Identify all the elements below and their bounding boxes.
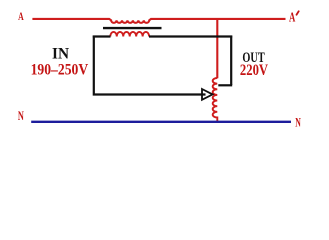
- svg-text:N: N: [18, 109, 24, 123]
- wire: rectangle top edge left part: [93, 35, 111, 37]
- svg-text:A: A: [289, 9, 296, 24]
- wire: fixed tap segment to coil: [218, 84, 232, 86]
- wire: red vertical drop from phase line to autotransformer: [216, 19, 218, 78]
- transformer core bar: [103, 27, 162, 29]
- inductor: autotransformer shunt winding (vertical coil): [213, 78, 218, 121]
- wire: rectangle top edge right part (crosses red drop): [149, 35, 232, 37]
- wire: neutral line N to N: [31, 121, 291, 123]
- inductor: transformer secondary winding: [110, 32, 149, 37]
- wiper arrowhead: [202, 89, 213, 100]
- wire: rectangle right side: [230, 36, 232, 86]
- svg-text:N: N: [295, 115, 301, 129]
- wire: rectangle left side and bottom edge (wiper feed): [94, 36, 206, 95]
- svg-text:190–250V: 190–250V: [31, 62, 89, 79]
- wire: phase line A to A' with series winding: [32, 19, 285, 23]
- svg-text:220V: 220V: [240, 62, 269, 79]
- svg-text:IN: IN: [52, 45, 69, 62]
- svg-text:A: A: [18, 9, 24, 23]
